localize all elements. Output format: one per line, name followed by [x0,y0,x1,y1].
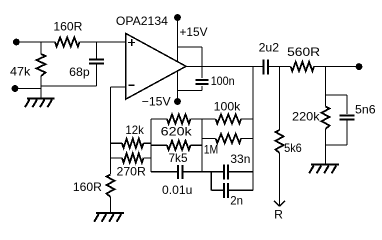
capacitor 2n [224,183,228,198]
wire input ground [15,88,41,90]
wire +15V to 100n [178,47,203,78]
svg-text:160R: 160R [73,180,102,194]
wire right column [252,67,254,191]
svg-text:1M: 1M [204,143,219,157]
label 2n [230,194,243,208]
label 270R [117,164,147,178]
node input terminal [13,39,20,46]
wire 220k top lead [325,67,327,107]
wire -15V supply [177,71,179,102]
wire 2u2 to 560R [268,66,291,68]
node input ground terminal [12,85,19,92]
svg-text:270R: 270R [117,164,147,178]
svg-text:−15V: −15V [142,95,171,109]
label OPA2134 [116,14,168,28]
svg-text:0.01u: 0.01u [162,183,192,197]
wire middle column [150,119,152,172]
svg-text:7k5: 7k5 [169,151,188,165]
wire input to 160R [16,41,55,43]
label 2u2 [259,41,280,55]
svg-text:620k: 620k [161,125,193,139]
resistor 160R (feedback shunt) [107,175,115,198]
svg-text:2n: 2n [230,194,243,208]
resistor 270R [111,153,152,162]
wire 5k6 to R [279,153,281,206]
wire 0.01u left lead [151,171,178,173]
node -15V terminal [174,98,181,105]
svg-text:160R: 160R [53,20,82,34]
capacitor 0.01u [178,165,182,179]
wire feedback column [110,87,112,174]
svg-text:100k: 100k [214,100,242,114]
capacitor 2u2 [264,60,268,75]
op-amp U1 OPA2134 [126,33,187,99]
ground feedback [94,213,124,222]
svg-text:5k6: 5k6 [284,141,302,155]
resistor 160R (input) [55,37,80,46]
svg-text:220k: 220k [292,110,321,124]
wire 220k-5n6 top joint [326,95,348,114]
svg-text:68p: 68p [69,65,90,79]
arrow to R channel [274,201,285,206]
resistor 12k [111,139,152,148]
svg-text:OPA2134: OPA2134 [116,14,168,28]
wire 0.01u right lead [182,171,202,173]
wire 33n right lead [228,171,253,173]
label 100k [214,100,242,114]
label 7k5 [169,151,188,165]
wire output [186,66,264,68]
wire 68p bottom lead [41,64,97,87]
svg-text:100n: 100n [211,74,235,88]
wire 100n to -15V rail [178,86,203,91]
wire 160R to ground [110,197,112,213]
wire 68p top lead [96,42,98,60]
svg-text:+15V: +15V [180,25,208,39]
wire 5n6 bottom lead [346,120,348,145]
label 0.01u [162,183,192,197]
wire +15V supply [177,18,179,62]
node output terminal [356,63,363,70]
wire -in to feedback column [111,86,126,88]
wire right-middle column [201,119,203,172]
capacitor 5n6 [340,115,355,119]
wire to output ground [325,145,327,164]
label 12k [125,123,144,137]
label +15V [180,25,208,39]
resistor 5k6 [276,130,284,153]
resistor 47k [37,54,46,76]
resistor 560R [291,62,314,71]
label 560R [287,45,320,59]
capacitor 100n [196,80,209,84]
resistor 1M [202,134,253,143]
label 1M [204,143,219,157]
wire 5k6 top lead [279,67,281,131]
wire 33n left lead [202,171,224,173]
wire 47k top lead [40,42,42,54]
label 5n6 [355,102,376,116]
wire 220k-5n6 bottom joint [326,129,348,145]
wire 160R to op-amp +in [80,41,126,43]
label -15V [142,95,171,109]
svg-text:47k: 47k [10,64,31,78]
resistor 7k5 [151,141,202,150]
label 68p [69,65,90,79]
svg-text:5n6: 5n6 [355,102,376,116]
svg-text:2u2: 2u2 [259,41,280,55]
label 5k6 [284,141,302,155]
label 160R bottom [73,180,102,194]
label 33n [230,152,250,166]
label 620k [161,125,193,139]
wire 560R to output node [314,66,359,68]
capacitor 33n [224,164,228,179]
ground input [25,99,55,108]
svg-text:560R: 560R [287,45,320,59]
capacitor 68p [89,60,104,64]
label 100n [211,74,235,88]
resistor 620k [151,114,202,123]
wire 47k bottom lead [40,76,42,98]
wire 2n branch [211,172,224,191]
resistor 220k [322,107,330,130]
svg-text:R: R [274,208,283,222]
ground output [309,165,339,174]
label 47k [10,64,31,78]
resistor 100k [202,114,253,123]
label 160R [53,20,82,34]
label R [274,208,283,222]
svg-text:33n: 33n [230,152,250,166]
wire 2n right lead [228,189,253,191]
node +15V terminal [174,14,181,21]
svg-text:12k: 12k [125,123,144,137]
label 220k [292,110,321,124]
